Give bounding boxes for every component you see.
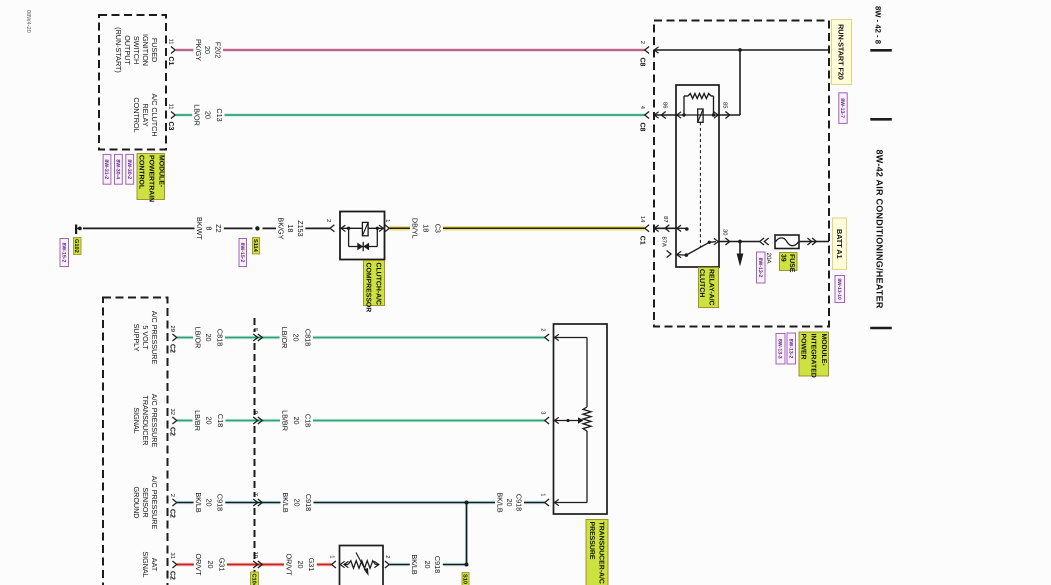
svg-text:A/C PRESSURE: A/C PRESSURE [150, 476, 159, 530]
title separator bar 1 [870, 49, 892, 52]
label C18 20 LB/BR right [280, 408, 313, 434]
powertrain control module PCM box (upper) [99, 15, 166, 150]
svg-text:G102: G102 [73, 239, 79, 253]
svg-text:CLUTCH-A/C: CLUTCH-A/C [375, 263, 382, 306]
svg-text:8W-13-2: 8W-13-2 [787, 339, 793, 359]
svg-text:C13: C13 [215, 108, 224, 121]
svg-text:30: 30 [721, 229, 728, 235]
TIPM pin 2 connector C8 [639, 41, 659, 67]
fuse 39 20A [775, 235, 799, 249]
label C918 20 BK/LB near transducer [495, 490, 524, 516]
svg-text:DB/YL: DB/YL [410, 218, 419, 239]
svg-text:18: 18 [286, 224, 295, 232]
label TRANSDUCER-A/C PRESSURE [586, 520, 608, 585]
ground G102 symbol [76, 225, 82, 235]
compressor clutch suppression diode loop [349, 228, 378, 251]
svg-text:87A: 87A [660, 237, 667, 247]
svg-text:LB/BR: LB/BR [193, 410, 202, 431]
svg-text:TRANSDUCER: TRANSDUCER [141, 396, 150, 446]
svg-text:8W - 42 - 8: 8W - 42 - 8 [874, 6, 883, 45]
in-line pin 8 [252, 328, 263, 341]
svg-text:CLUTCH: CLUTCH [698, 269, 705, 297]
wire C18 20 LB/BR (transducer signal) [177, 419, 545, 422]
svg-text:20: 20 [204, 499, 213, 507]
A/C pressure transducer box [554, 324, 608, 514]
svg-text:8W-13-10: 8W-13-10 [836, 278, 842, 300]
TIPM pin 14 connector C1 [639, 216, 659, 245]
svg-text:C18: C18 [303, 414, 312, 427]
svg-text:14: 14 [639, 216, 645, 223]
label C818 20 LB/OR right [280, 325, 313, 351]
svg-text:A/C PRESSURE: A/C PRESSURE [150, 311, 159, 365]
label C818 20 LB/OR left [193, 325, 225, 351]
powertrain control module PCM box (lower) [103, 298, 168, 585]
svg-text:7: 7 [252, 493, 258, 496]
ref 8W-15-2 S114 [239, 239, 247, 267]
label G31 20 OR/VT left [194, 552, 227, 578]
svg-text:31: 31 [169, 553, 176, 559]
svg-text:LB/OR: LB/OR [193, 327, 202, 349]
PCM label: A/C PRESSURE SENSOR GROUND [132, 476, 159, 530]
relay pin 30 [721, 229, 729, 245]
svg-text:20: 20 [296, 561, 305, 569]
ref 8W-30-4 [115, 154, 123, 184]
svg-text:08W4-20: 08W4-20 [25, 10, 31, 33]
label CLUTCH-A/C COMPRESSOR [364, 261, 385, 313]
transducer pin 1 [539, 493, 558, 506]
title 8W-42 AIR CONDITIONING/HEATER [874, 150, 884, 309]
svg-text:MODULE-: MODULE- [820, 334, 827, 367]
svg-text:C818: C818 [303, 329, 312, 346]
relay contact 87 internal [676, 225, 689, 231]
wire C818 20 LB/OR (pressure supply) [177, 336, 545, 339]
svg-text:1: 1 [539, 493, 545, 496]
splice S114 [255, 226, 259, 230]
svg-text:LB/BR: LB/BR [280, 410, 289, 431]
svg-text:20: 20 [423, 561, 432, 569]
wire BK/LB vertical link to splice S10 [465, 504, 468, 565]
off-page arrow down (B+ distribution) [737, 254, 744, 267]
svg-text:C8: C8 [639, 58, 646, 67]
fuse terminals right [807, 238, 816, 245]
svg-text:C918: C918 [304, 494, 313, 511]
svg-text:BK/LB: BK/LB [495, 492, 504, 513]
svg-text:20: 20 [204, 334, 213, 342]
svg-text:BK/WT: BK/WT [195, 217, 204, 240]
label C18 20 LB/BR left [193, 408, 226, 434]
label G31 20 OR/VT right [284, 552, 317, 578]
TIPM internal line relay 30 to fuse to BATT A1 [719, 242, 829, 254]
svg-text:2: 2 [169, 494, 176, 497]
relay box A/C clutch relay [676, 85, 719, 267]
wire F202 20 PK/GY [176, 48, 645, 51]
svg-text:C2: C2 [169, 571, 176, 580]
in-line pin 7 [252, 493, 263, 506]
wire C918 20 BK/LB (AAT sensor ground) [390, 563, 467, 566]
svg-text:20: 20 [203, 46, 212, 54]
svg-text:CONTROL: CONTROL [132, 97, 141, 132]
TIPM internal feed RUN-START to relay 85 and C8-2 [654, 50, 829, 115]
svg-text:1: 1 [328, 555, 334, 558]
svg-text:C104: C104 [251, 574, 257, 585]
AAT sensor pin 2 [384, 555, 391, 568]
label FUSE 39 [780, 253, 798, 273]
svg-text:POWER: POWER [799, 334, 806, 360]
svg-text:SIGNAL: SIGNAL [132, 407, 141, 433]
junction node relay30/fuse/arrow [738, 240, 742, 244]
svg-text:OR/VT: OR/VT [284, 554, 293, 577]
svg-text:PK/GY: PK/GY [194, 39, 203, 61]
relay contact 87A internal [676, 251, 688, 257]
label MODULE-POWERTRAIN CONTROL [137, 154, 165, 203]
compressor clutch box [340, 212, 385, 260]
splice S10 [465, 563, 469, 567]
svg-text:20: 20 [292, 499, 301, 507]
PCM label: A/C CLUTCH RELAY CONTROL [132, 93, 159, 136]
svg-text:32: 32 [169, 409, 176, 415]
svg-text:A/C PRESSURE: A/C PRESSURE [150, 394, 159, 448]
ref 8W-15-2 G102 [60, 239, 69, 267]
AAT sensor element [344, 561, 379, 569]
in-line pin 10 [252, 552, 263, 568]
svg-text:86: 86 [661, 102, 668, 108]
svg-text:SIGNAL: SIGNAL [141, 551, 150, 577]
svg-text:BK/LB: BK/LB [281, 492, 290, 513]
label 20A [765, 253, 772, 265]
svg-text:8W-30-2: 8W-30-2 [126, 159, 132, 179]
svg-text:C8: C8 [639, 123, 646, 132]
label Z153 18 BK/GY [276, 215, 305, 241]
svg-text:CONTROL: CONTROL [137, 155, 144, 189]
label MODULE-INTEGRATED POWER [799, 332, 829, 378]
svg-text:5 VOLT: 5 VOLT [141, 325, 150, 350]
svg-text:LB/OR: LB/OR [280, 327, 289, 349]
label S114 [252, 238, 260, 255]
svg-text:11: 11 [167, 103, 173, 109]
svg-text:INTEGRATED: INTEGRATED [810, 334, 817, 378]
svg-text:20: 20 [203, 111, 212, 119]
wire C13 20 LB/OR [176, 113, 645, 116]
PCM pin 29 connector C2 [169, 326, 177, 354]
svg-text:C18: C18 [216, 414, 225, 427]
label C918 20 BK/LB sensor side [410, 552, 443, 578]
svg-text:OR/VT: OR/VT [194, 554, 203, 577]
TIPM internal line C1-14 to relay 87 [654, 227, 676, 229]
svg-text:FUSED: FUSED [150, 38, 159, 62]
svg-text:8W-42 AIR CONDITIONING/HEATER: 8W-42 AIR CONDITIONING/HEATER [874, 150, 884, 309]
svg-text:C918: C918 [433, 556, 442, 573]
svg-text:20: 20 [292, 334, 301, 342]
svg-text:RELAY-A/C: RELAY-A/C [708, 269, 715, 306]
svg-text:GROUND: GROUND [132, 487, 141, 519]
svg-text:C918: C918 [216, 494, 225, 511]
svg-text:Z2: Z2 [214, 224, 223, 232]
label RELAY-A/C CLUTCH [698, 268, 719, 308]
svg-text:20: 20 [206, 561, 215, 569]
svg-text:SENSOR: SENSOR [141, 487, 150, 517]
junction on C918 ground wire [465, 501, 469, 505]
svg-text:C2: C2 [169, 344, 176, 353]
svg-text:SWITCH: SWITCH [132, 36, 141, 64]
svg-text:8W-15-2: 8W-15-2 [60, 243, 66, 263]
AAT sensor thermistor arrow [356, 553, 369, 577]
svg-text:8W-13-2: 8W-13-2 [757, 258, 763, 278]
transducer pin 3 [539, 411, 558, 424]
PCM pin 32 connector C2 [169, 409, 177, 437]
relay pin 85 [721, 102, 729, 118]
relay pin 87A [660, 237, 671, 258]
label RUN-START F20 [832, 20, 852, 85]
PCM pin 31 connector C2 [169, 553, 177, 581]
totally integrated power module TIPM box [654, 21, 829, 327]
AAT sensor box [340, 546, 384, 585]
svg-text:2: 2 [639, 41, 646, 44]
relay pin 86 [661, 102, 668, 118]
svg-text:FUSE: FUSE [788, 254, 795, 273]
label C13 20 LB/OR [192, 102, 224, 128]
ref 8W-13-3 module [776, 334, 785, 365]
svg-text:20: 20 [204, 417, 213, 425]
PCM label: A/C PRESSURE 5 VOLT SUPPLY [132, 311, 159, 365]
title separator bar 3 [870, 327, 892, 330]
svg-text:COMPRESSOR: COMPRESSOR [365, 263, 372, 313]
label C104 [251, 572, 259, 585]
transducer pin 2 [539, 328, 558, 341]
relay coil [676, 94, 719, 119]
svg-text:C2: C2 [169, 509, 176, 518]
svg-text:8W-30-4: 8W-30-4 [115, 159, 121, 179]
svg-text:POWERTRAIN: POWERTRAIN [147, 155, 154, 202]
svg-text:20A: 20A [765, 253, 772, 265]
label S10 [462, 573, 470, 585]
PCM pin 2 connector C2 [169, 494, 177, 518]
svg-text:RELAY: RELAY [141, 103, 150, 126]
PCM pin 11 connector C3 [167, 103, 175, 130]
svg-text:18: 18 [421, 224, 430, 232]
svg-text:8W-13-7: 8W-13-7 [839, 98, 845, 118]
svg-text:S114: S114 [252, 239, 258, 253]
svg-text:2: 2 [384, 555, 391, 558]
relay pin 87 [662, 216, 670, 232]
svg-text:85: 85 [721, 102, 728, 108]
label Z2 8 BK/WT [195, 215, 224, 241]
svg-text:3: 3 [539, 411, 546, 414]
svg-text:11: 11 [167, 38, 173, 44]
wire C3 18 DB/YL [390, 226, 645, 231]
transducer internal rail [554, 338, 587, 503]
svg-text:A/C CLUTCH: A/C CLUTCH [150, 93, 159, 136]
svg-text:C2: C2 [169, 427, 176, 436]
label BATT A1 [833, 218, 847, 270]
PCM label: AAT SIGNAL [141, 551, 159, 577]
svg-text:1: 1 [384, 219, 390, 222]
svg-text:BK/LB: BK/LB [410, 554, 419, 575]
label F202 20 PK/GY [193, 37, 223, 63]
svg-text:8W-31-2: 8W-31-2 [103, 159, 109, 179]
svg-text:OUTPUT: OUTPUT [123, 35, 132, 65]
TIPM pin 4 connector C8 [639, 106, 659, 132]
ref 8W-31-2 [103, 154, 111, 184]
svg-text:8: 8 [205, 226, 214, 230]
svg-text:BK/GY: BK/GY [276, 217, 285, 239]
svg-text:8W-15-2: 8W-15-2 [239, 243, 245, 263]
relay switch blade [686, 238, 718, 255]
svg-text:BK/LB: BK/LB [194, 492, 203, 513]
title separator bar 2 [870, 118, 892, 121]
svg-text:C918: C918 [514, 494, 523, 511]
svg-text:IGNITION: IGNITION [141, 34, 150, 66]
svg-text:C3: C3 [433, 224, 442, 233]
svg-text:20: 20 [292, 417, 301, 425]
svg-text:RUN-START F20: RUN-START F20 [836, 24, 845, 80]
svg-text:10: 10 [252, 552, 259, 558]
ref 8W-13-10 [835, 276, 845, 303]
svg-text:8: 8 [252, 328, 259, 331]
in-line pin 9 [252, 411, 263, 424]
in-line connector C104 dashed line [254, 318, 256, 585]
compressor pin 2 [325, 219, 346, 232]
ref 8W-13-2 fuse [757, 252, 766, 283]
compressor pin 1 [384, 219, 390, 232]
svg-text:SUPPLY: SUPPLY [132, 324, 141, 352]
ref 8W-30-2 [126, 154, 134, 184]
svg-text:29: 29 [169, 326, 176, 332]
svg-text:C818: C818 [215, 329, 224, 346]
ref 8W-13-2 module [787, 333, 796, 364]
fuse terminals left [760, 238, 769, 245]
label C918 20 BK/LB left [194, 490, 226, 516]
svg-text:F202: F202 [214, 42, 223, 58]
svg-text:TRANSDUCER-A/C: TRANSDUCER-A/C [598, 522, 605, 584]
transducer resistor element [583, 407, 591, 431]
label G102 [73, 238, 81, 255]
svg-text:S10: S10 [462, 574, 468, 584]
ref 8W-13-7 [839, 93, 847, 124]
svg-text:G31: G31 [307, 558, 316, 572]
svg-text:(RUN-START): (RUN-START) [114, 27, 123, 73]
wire Z2/Z153 ground wire BK/WT-BK/GY [83, 227, 330, 229]
svg-text:BATT A1: BATT A1 [835, 229, 844, 259]
AAT sensor pin 1 [328, 555, 344, 568]
PCM label: FUSED IGNITION SWITCH OUTPUT (RUN-START) [114, 27, 159, 73]
svg-text:C3: C3 [167, 122, 174, 131]
svg-text:9: 9 [252, 411, 259, 414]
svg-text:39: 39 [780, 254, 787, 262]
page number 8W - 42 - 8 [874, 6, 883, 45]
svg-text:C1: C1 [639, 236, 646, 245]
PCM label: A/C PRESSURE TRANSDUCER SIGNAL [132, 394, 159, 448]
corner watermark 08W4-20 [25, 10, 31, 33]
svg-text:G31: G31 [217, 558, 226, 572]
wire G31 20 OR/VT (AAT signal) [177, 563, 331, 566]
svg-text:2: 2 [325, 219, 332, 222]
svg-text:87: 87 [662, 216, 669, 222]
svg-text:LB/OR: LB/OR [193, 104, 202, 126]
junction node run-start feed [738, 48, 742, 52]
label C918 20 BK/LB right [281, 490, 314, 516]
svg-text:PRESSURE: PRESSURE [588, 522, 595, 560]
svg-text:AAT: AAT [150, 558, 159, 572]
svg-text:C1: C1 [167, 57, 174, 66]
svg-text:20: 20 [505, 499, 514, 507]
svg-text:MODULE-: MODULE- [157, 155, 164, 188]
transducer wiper arrow [554, 417, 584, 424]
svg-text:Z153: Z153 [296, 220, 305, 236]
compressor clutch coil [341, 222, 385, 235]
label C3 18 DB/YL [410, 215, 443, 241]
TIPM internal line C8-4 to relay 86 [654, 114, 676, 116]
relay armature linkage [698, 109, 703, 247]
svg-text:8W-13-3: 8W-13-3 [777, 339, 783, 359]
PCM pin 11 connector C1 [167, 38, 175, 65]
wire C918 20 BK/LB (sensor ground) [177, 501, 545, 504]
svg-text:2: 2 [539, 328, 546, 331]
